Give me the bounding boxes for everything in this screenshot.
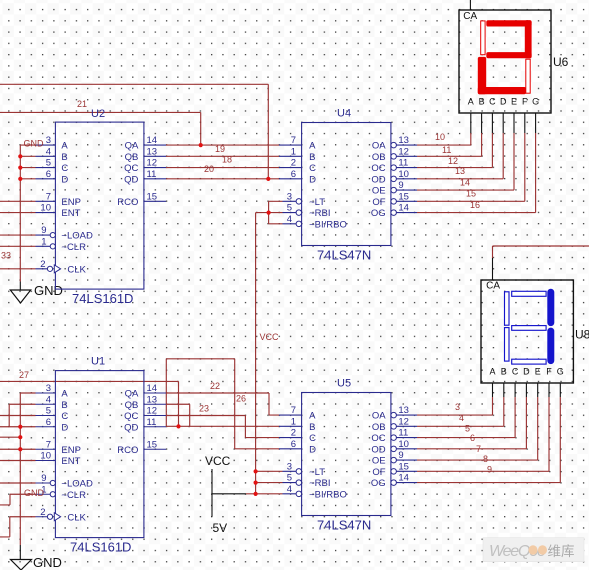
svg-text:B: B — [501, 367, 507, 377]
svg-text:~LT: ~LT — [309, 197, 325, 208]
svg-text:74LS47N: 74LS47N — [317, 518, 371, 533]
svg-text:QC: QC — [124, 411, 138, 422]
svg-text:B: B — [61, 152, 67, 163]
svg-text:A: A — [309, 411, 316, 422]
svg-text:B: B — [309, 152, 315, 163]
svg-text:2: 2 — [40, 507, 45, 518]
svg-text:5: 5 — [465, 424, 470, 434]
svg-text:6: 6 — [46, 169, 51, 180]
svg-text:4: 4 — [287, 484, 292, 495]
svg-text:10: 10 — [435, 132, 445, 142]
svg-text:OC: OC — [371, 433, 385, 444]
svg-text:11: 11 — [398, 158, 408, 169]
svg-text:12: 12 — [398, 416, 409, 427]
svg-text:ENT: ENT — [61, 208, 80, 219]
svg-text:U2: U2 — [91, 108, 105, 120]
svg-text:D: D — [61, 174, 68, 185]
svg-text:A: A — [309, 141, 316, 152]
svg-text:OF: OF — [372, 467, 385, 478]
svg-text:CA: CA — [463, 11, 477, 22]
svg-text:A: A — [468, 97, 474, 107]
svg-text:D: D — [500, 97, 507, 107]
svg-text:74LS161D: 74LS161D — [72, 291, 133, 306]
svg-text:OB: OB — [372, 152, 386, 163]
svg-text:15: 15 — [147, 439, 158, 450]
svg-text:E: E — [511, 97, 517, 107]
svg-text:ENT: ENT — [61, 456, 80, 467]
svg-text:OA: OA — [372, 411, 386, 422]
svg-text:D: D — [309, 444, 316, 455]
svg-text:7: 7 — [46, 191, 51, 202]
svg-text:G: G — [557, 367, 564, 377]
svg-text:4: 4 — [459, 413, 464, 423]
svg-text:~CLR: ~CLR — [61, 242, 86, 253]
svg-text:5: 5 — [287, 203, 292, 214]
svg-text:CLK: CLK — [67, 512, 86, 523]
svg-text:10: 10 — [40, 203, 51, 214]
svg-text:U5: U5 — [337, 378, 351, 390]
svg-text:ENP: ENP — [61, 197, 81, 208]
svg-text:C: C — [61, 163, 68, 174]
svg-text:B: B — [479, 97, 485, 107]
svg-text:7: 7 — [476, 444, 481, 454]
svg-text:3: 3 — [46, 135, 51, 146]
svg-text:B: B — [309, 422, 315, 433]
svg-text:8: 8 — [483, 454, 488, 464]
svg-text:QB: QB — [125, 152, 139, 163]
svg-text:20: 20 — [204, 164, 214, 174]
svg-text:OD: OD — [371, 444, 385, 455]
svg-text:6: 6 — [291, 169, 296, 180]
svg-text:3: 3 — [287, 191, 292, 202]
svg-text:6: 6 — [291, 439, 296, 450]
svg-text:VCC: VCC — [205, 454, 231, 468]
svg-text:CA: CA — [486, 280, 500, 291]
svg-text:6: 6 — [46, 417, 51, 428]
svg-text:维库: 维库 — [548, 544, 575, 559]
svg-text:OE: OE — [372, 456, 386, 467]
svg-text:QA: QA — [125, 141, 139, 152]
svg-text:QD: QD — [124, 174, 138, 185]
svg-text:15: 15 — [147, 191, 158, 202]
svg-text:14: 14 — [147, 383, 158, 394]
svg-text:~BI/RBO: ~BI/RBO — [309, 219, 347, 230]
svg-text:OG: OG — [371, 208, 386, 219]
svg-text:C: C — [512, 367, 519, 377]
svg-text:27: 27 — [19, 370, 29, 380]
svg-text:D: D — [309, 174, 316, 185]
svg-text:QB: QB — [125, 400, 139, 411]
svg-text:3: 3 — [287, 461, 292, 472]
svg-text:14: 14 — [398, 203, 409, 214]
svg-text:OG: OG — [371, 478, 386, 489]
svg-text:11: 11 — [398, 428, 408, 439]
svg-text:13: 13 — [147, 394, 158, 405]
svg-text:13: 13 — [455, 166, 465, 176]
svg-text:13: 13 — [398, 135, 409, 146]
svg-text:5: 5 — [46, 158, 51, 169]
svg-text:3: 3 — [46, 383, 51, 394]
svg-text:18: 18 — [222, 155, 232, 165]
svg-text:16: 16 — [470, 200, 480, 210]
svg-text:11: 11 — [147, 417, 157, 428]
svg-text:~RBI: ~RBI — [309, 478, 330, 489]
svg-text:6: 6 — [470, 433, 475, 443]
svg-text:5: 5 — [46, 406, 51, 417]
svg-text:74LS47N: 74LS47N — [317, 248, 371, 263]
svg-text:11: 11 — [147, 169, 157, 180]
svg-text:12: 12 — [147, 406, 158, 417]
svg-text:C: C — [489, 97, 496, 107]
svg-text:11: 11 — [442, 145, 451, 155]
svg-text:U1: U1 — [91, 356, 105, 368]
svg-text:1: 1 — [291, 146, 296, 157]
svg-text:5: 5 — [287, 473, 292, 484]
svg-text:2: 2 — [291, 158, 296, 169]
svg-text:~BI/RBO: ~BI/RBO — [309, 489, 347, 500]
svg-text:D: D — [61, 422, 68, 433]
svg-text:4: 4 — [287, 214, 292, 225]
svg-text:2: 2 — [40, 259, 45, 270]
svg-text:12: 12 — [448, 156, 458, 166]
svg-text:10: 10 — [398, 439, 409, 450]
svg-text:1: 1 — [291, 416, 296, 427]
svg-text:QC: QC — [124, 163, 138, 174]
svg-text:33: 33 — [1, 251, 11, 261]
svg-text:10: 10 — [40, 451, 51, 462]
svg-text:OA: OA — [372, 141, 386, 152]
svg-text:19: 19 — [215, 144, 225, 154]
svg-text:ENP: ENP — [61, 445, 81, 456]
svg-text:74LS161D: 74LS161D — [70, 540, 131, 555]
svg-text:~CLR: ~CLR — [61, 490, 86, 501]
svg-text:CLK: CLK — [67, 264, 86, 275]
svg-text:A: A — [489, 367, 495, 377]
svg-text:1: 1 — [41, 236, 46, 247]
svg-text:4: 4 — [46, 146, 51, 157]
svg-text:15: 15 — [398, 461, 409, 472]
svg-text:GND: GND — [24, 488, 45, 498]
svg-text:U4: U4 — [337, 108, 351, 120]
svg-text:E: E — [535, 367, 541, 377]
svg-text:26: 26 — [236, 394, 246, 404]
svg-text:WeeQoo: WeeQoo — [489, 543, 546, 560]
svg-text:12: 12 — [398, 146, 409, 157]
svg-text:RCO: RCO — [117, 197, 138, 208]
svg-text:F: F — [546, 367, 552, 377]
svg-text:VCC: VCC — [260, 332, 280, 342]
svg-text:RCO: RCO — [117, 445, 138, 456]
svg-text:U6: U6 — [553, 55, 569, 69]
svg-text:OE: OE — [372, 186, 386, 197]
svg-text:9: 9 — [41, 225, 46, 236]
svg-text:7: 7 — [291, 405, 296, 416]
svg-text:~LOAD: ~LOAD — [61, 479, 93, 490]
svg-text:9: 9 — [487, 465, 492, 475]
svg-text:F: F — [522, 97, 528, 107]
svg-text:12: 12 — [147, 158, 158, 169]
svg-text:GND: GND — [34, 283, 63, 298]
svg-text:5V: 5V — [213, 521, 228, 535]
svg-text:GND: GND — [24, 139, 45, 149]
svg-text:C: C — [309, 163, 316, 174]
svg-text:4: 4 — [46, 394, 51, 405]
svg-text:21: 21 — [77, 99, 87, 109]
svg-text:9: 9 — [41, 473, 46, 484]
svg-text:OD: OD — [371, 174, 385, 185]
svg-text:~LOAD: ~LOAD — [61, 231, 93, 242]
svg-text:A: A — [61, 389, 68, 400]
svg-text:14: 14 — [147, 135, 158, 146]
svg-text:G: G — [532, 97, 539, 107]
svg-text:OF: OF — [372, 197, 385, 208]
svg-text:2: 2 — [291, 428, 296, 439]
svg-text:14: 14 — [460, 178, 470, 188]
svg-text:A: A — [61, 141, 68, 152]
svg-text:~LT: ~LT — [309, 467, 325, 478]
svg-text:14: 14 — [398, 473, 409, 484]
svg-text:15: 15 — [466, 189, 476, 199]
svg-text:B: B — [61, 400, 67, 411]
svg-text:~RBI: ~RBI — [309, 208, 330, 219]
svg-text:9: 9 — [398, 450, 403, 461]
svg-text:10: 10 — [398, 169, 409, 180]
svg-text:13: 13 — [398, 405, 409, 416]
svg-text:GND: GND — [33, 555, 62, 570]
svg-text:9: 9 — [398, 180, 403, 191]
svg-text:D: D — [523, 367, 530, 377]
svg-text:QA: QA — [125, 389, 139, 400]
svg-text:13: 13 — [147, 146, 158, 157]
svg-text:22: 22 — [210, 381, 220, 391]
svg-text:7: 7 — [46, 439, 51, 450]
svg-text:C: C — [309, 433, 316, 444]
svg-text:23: 23 — [199, 404, 209, 414]
svg-text:OC: OC — [371, 163, 385, 174]
svg-text:U8: U8 — [575, 328, 589, 342]
svg-text:C: C — [61, 411, 68, 422]
svg-text:3: 3 — [455, 402, 460, 412]
svg-text:OB: OB — [372, 422, 386, 433]
svg-text:QD: QD — [124, 422, 138, 433]
svg-text:7: 7 — [291, 135, 296, 146]
svg-text:15: 15 — [398, 191, 409, 202]
